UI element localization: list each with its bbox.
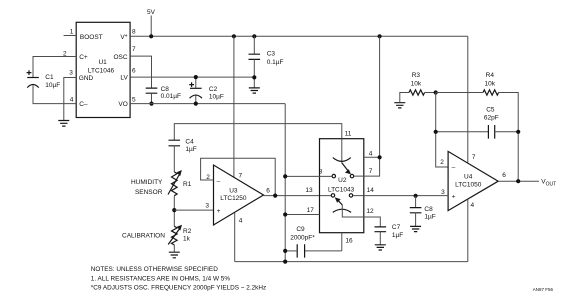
svg-text:6: 6: [266, 187, 270, 194]
switch S2 arm with arrow: [335, 197, 343, 205]
wire R4 left lead: [436, 92, 483, 94]
capacitor C8 0.01uF: [146, 88, 158, 93]
op-amp U4 LTC1050: [448, 151, 498, 210]
junction C5/pin2 vertical: [434, 130, 438, 134]
wire pin6 LV ground bus: [130, 76, 254, 78]
wire C3 bottom lead: [253, 59, 255, 88]
svg-text:C2: C2: [209, 86, 218, 93]
junction pin17/VO vertical: [283, 212, 287, 216]
svg-text:C1: C1: [45, 74, 54, 81]
wire 5V drop to U3 pin7: [233, 36, 235, 177]
svg-text:6: 6: [132, 68, 136, 75]
svg-text:BOOST: BOOST: [80, 34, 103, 41]
svg-text:1µF: 1µF: [392, 232, 403, 239]
op-amp U3 LTC1250: [214, 165, 264, 225]
svg-text:7: 7: [369, 168, 373, 175]
wire R4 right lead down to output node: [499, 93, 519, 182]
svg-text:C–: C–: [79, 101, 88, 108]
wire U4 output: [498, 180, 539, 182]
junction C2/LV: [194, 75, 198, 79]
svg-text:LTC1050: LTC1050: [455, 181, 482, 188]
svg-text:10k: 10k: [411, 81, 422, 88]
svg-text:0.1µF: 0.1µF: [267, 59, 284, 66]
capacitor C2 10uF (polarized): [189, 77, 202, 104]
svg-text:6: 6: [502, 172, 506, 179]
wire V+ rail: [130, 35, 468, 37]
svg-text:LTC1046: LTC1046: [88, 68, 115, 75]
wire pin8 to VO vertical: [285, 175, 332, 177]
svg-text:12: 12: [366, 208, 374, 215]
wire R3 ground lead: [400, 93, 409, 103]
svg-text:62pF: 62pF: [484, 115, 499, 122]
svg-text:1µF: 1µF: [185, 146, 196, 153]
svg-text:C+: C+: [79, 54, 88, 61]
capacitor C5 62pF: [488, 125, 494, 139]
notes text: [91, 266, 266, 291]
svg-text:14: 14: [367, 187, 375, 194]
ground at C3: [249, 88, 260, 93]
svg-text:–: –: [452, 165, 456, 172]
junction R3/R4/U4 pin2: [434, 90, 438, 94]
svg-text:OSC: OSC: [114, 54, 128, 61]
ground at C7: [375, 245, 386, 250]
wire node to U3 pin3: [174, 209, 213, 211]
op-amp/IC U1 LTC1046 box: [76, 22, 130, 117]
wire R1 to R2 node: [173, 196, 175, 227]
wire C5 left lead: [436, 131, 489, 133]
svg-text:17: 17: [307, 207, 315, 214]
svg-text:1µF: 1µF: [424, 213, 435, 220]
wire C8a bottom to VO line: [151, 93, 153, 103]
svg-text:16: 16: [345, 237, 353, 244]
junction C9/VO vertical: [283, 249, 287, 253]
svg-text:R2: R2: [183, 228, 192, 235]
svg-text:10k: 10k: [485, 81, 496, 88]
svg-text:+: +: [217, 208, 221, 215]
svg-text:R4: R4: [486, 72, 495, 79]
wire pin11 lead inside box: [341, 139, 343, 163]
capacitor C7 1uF: [375, 227, 387, 232]
junction C2/VO: [194, 102, 198, 106]
svg-text:LV: LV: [120, 75, 128, 82]
svg-text:4: 4: [470, 202, 474, 209]
junction VO vertical/bottom rail: [283, 260, 287, 264]
switch S1 arc: [333, 158, 351, 162]
junction feedback/output: [273, 194, 277, 198]
svg-text:SENSOR: SENSOR: [135, 189, 163, 196]
wire U2 pin14 to U4 pin3: [353, 195, 448, 197]
wire pin7 from contact to supply drop: [354, 36, 380, 176]
svg-text:8: 8: [319, 168, 323, 175]
svg-text:11: 11: [345, 130, 352, 137]
svg-text:4: 4: [239, 217, 243, 224]
switch S1 contact circle pin8: [332, 174, 335, 177]
capacitor C3 0.1uF: [249, 54, 261, 59]
wire R2 to ground: [173, 245, 175, 252]
wire C9 right lead: [305, 250, 342, 252]
switch S1 arm with arrow: [342, 163, 351, 175]
capacitor C8 1uF: [410, 208, 422, 213]
svg-text:C9: C9: [296, 226, 305, 233]
wire C1 bottom to pin4 C-: [33, 85, 76, 103]
wire V+ rail drop to U4 pin7: [467, 36, 469, 162]
wire pin16 lead down: [341, 233, 343, 251]
wire C4 to R1: [173, 146, 175, 172]
svg-text:U4: U4: [464, 173, 473, 180]
svg-text:C7: C7: [392, 224, 401, 231]
svg-text:4: 4: [70, 96, 74, 103]
ground at R2: [169, 252, 180, 258]
wire pin5 VO line: [130, 103, 285, 105]
svg-text:U3: U3: [229, 188, 238, 195]
svg-text:5V: 5V: [147, 9, 156, 16]
svg-text:8: 8: [132, 29, 136, 36]
svg-text:AN87 F56: AN87 F56: [533, 287, 554, 292]
junction pin4/drop: [378, 155, 382, 159]
switch S2 arc: [333, 209, 351, 212]
svg-text:4: 4: [369, 151, 373, 158]
wire C8 bottom lead: [415, 213, 417, 227]
junction R1/R2/U3 pin3: [172, 208, 176, 212]
svg-text:10µF: 10µF: [209, 94, 224, 101]
wire pin1 BOOST stub: [64, 35, 77, 37]
resistor R4 10k: [483, 90, 499, 95]
svg-text:NOTES: UNLESS OTHERWISE SPECIF: NOTES: UNLESS OTHERWISE SPECIFIED: [91, 266, 218, 273]
junction C3/LV bus: [252, 75, 256, 79]
svg-text:13: 13: [305, 187, 313, 194]
wire R3 to summing node: [425, 92, 436, 94]
capacitor C1 10uF (polarized): [27, 70, 39, 87]
switch IC U2 LTC1043 box: [320, 139, 364, 233]
resistor R1 humidity sensor (variable): [168, 170, 182, 196]
switch S2 contact circle pin14: [349, 194, 352, 197]
wire pin3 GND down: [64, 78, 76, 121]
wire C9 left lead: [285, 250, 297, 252]
wire C8 top lead: [415, 196, 417, 208]
junction rail/C3: [252, 34, 256, 38]
svg-text:GND: GND: [79, 75, 94, 82]
svg-text:1: 1: [70, 28, 74, 35]
wire pin2 C+ to C1 top: [33, 57, 76, 78]
svg-text:CALIBRATION: CALIBRATION: [122, 232, 165, 239]
svg-text:C5: C5: [486, 107, 495, 114]
svg-text:LTC1043: LTC1043: [328, 187, 355, 194]
switch S1 contact circle pin7: [350, 174, 353, 177]
svg-text:2: 2: [440, 159, 444, 166]
junction 5V/rail: [149, 34, 153, 38]
wire U3 feedback loop pin2 to output: [201, 158, 276, 195]
svg-text:0.01µF: 0.01µF: [161, 93, 181, 100]
wire pin7 OSC down to C8: [130, 56, 151, 88]
svg-text:C3: C3: [267, 50, 276, 57]
wire S2 arm to pin12 out to C7: [342, 205, 380, 227]
svg-text:5: 5: [132, 96, 136, 103]
junction C5/output vertical: [516, 130, 520, 134]
svg-text:U2: U2: [338, 177, 347, 184]
wire 5V lead: [150, 16, 152, 37]
svg-text:U1: U1: [98, 59, 107, 66]
ground at U1 pin3: [58, 121, 69, 127]
wire C5 right lead: [495, 131, 519, 133]
svg-text:R1: R1: [183, 181, 192, 188]
wire U3 output to U2 pin13: [264, 195, 332, 197]
capacitor C4 1uF: [169, 140, 181, 146]
svg-text:VO: VO: [118, 101, 127, 108]
svg-text:C8: C8: [424, 206, 433, 213]
svg-text:LTC1250: LTC1250: [220, 195, 247, 202]
svg-text:7: 7: [132, 46, 136, 53]
svg-text:R3: R3: [412, 72, 421, 79]
junction pin8/VO vertical: [283, 174, 287, 178]
svg-text:*C9 ADJUSTS OSC. FREQUENCY 200: *C9 ADJUSTS OSC. FREQUENCY 2000pF YIELDS…: [91, 284, 266, 291]
wire bottom negative rail: [235, 261, 468, 263]
svg-text:+: +: [452, 194, 456, 201]
svg-text:3: 3: [441, 189, 445, 196]
svg-text:3: 3: [205, 202, 209, 209]
wire pin4 stub: [364, 156, 380, 158]
resistor R3 10k: [409, 90, 425, 95]
junction output node: [516, 179, 520, 183]
wire C7 to ground: [379, 232, 381, 245]
svg-text:HUMIDITY: HUMIDITY: [131, 179, 163, 186]
wire C3 top lead: [253, 36, 255, 54]
wire U4 pin2 vertical: [436, 93, 448, 168]
svg-text:1k: 1k: [183, 235, 191, 242]
svg-text:2000pF*: 2000pF*: [290, 235, 315, 242]
wire U3 pin4 to bottom rail: [234, 213, 236, 262]
junction C8a/VO: [149, 102, 153, 106]
svg-text:7: 7: [238, 172, 242, 179]
capacitor C9 2000pF: [297, 244, 304, 257]
svg-text:3: 3: [69, 70, 73, 77]
resistor R2 1k calibration (variable): [168, 225, 182, 245]
junction rail/U2 pin4 drop: [378, 34, 382, 38]
wire C4 top wire to U2 pin11: [174, 124, 341, 141]
junction rail/U3 supply drop: [232, 34, 236, 38]
ground at R3: [394, 103, 405, 108]
wire U4 pin4 to bottom rail: [467, 199, 469, 261]
junction C8/pin3 wire: [414, 194, 418, 198]
svg-text:1. ALL RESISTANCES ARE IN OHM: 1. ALL RESISTANCES ARE IN OHMS, 1/4 W 5%: [91, 275, 231, 282]
svg-text:10µF: 10µF: [45, 82, 60, 89]
switch S2 contact circle pin13: [331, 194, 334, 197]
svg-text:–: –: [217, 178, 221, 185]
wire VO drop (negative supply vertical): [284, 104, 286, 262]
svg-text:7: 7: [472, 154, 476, 161]
svg-text:C4: C4: [185, 139, 194, 146]
ground at C8: [410, 226, 421, 231]
wire pin17 stub from VO vertical: [285, 214, 319, 216]
